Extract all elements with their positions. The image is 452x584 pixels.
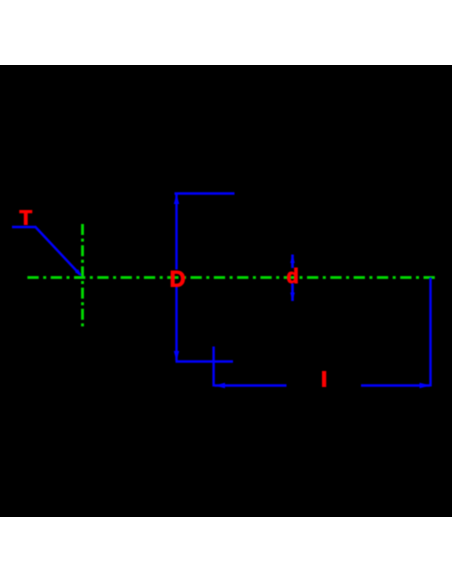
extension line l left vertical xyxy=(212,347,214,387)
arrowhead D up xyxy=(174,194,179,204)
svg-text:d: d xyxy=(287,266,299,288)
dimension line D vertical upper segment xyxy=(175,194,177,270)
arrowhead l left xyxy=(215,383,226,388)
centerline vertical (cross axis) xyxy=(81,224,84,329)
extension line l right vertical xyxy=(429,278,431,387)
dimension line d vertical upper segment xyxy=(291,255,294,269)
leader line T horizontal xyxy=(12,226,36,228)
arrowhead D down xyxy=(174,351,179,361)
centerline horizontal (main axis) xyxy=(27,276,437,279)
leader line T diagonal xyxy=(35,227,80,275)
arrowhead d down xyxy=(290,293,295,302)
arrowhead l right xyxy=(420,383,431,388)
svg-text:T: T xyxy=(20,207,33,230)
extension line D top xyxy=(175,192,235,194)
svg-text:D: D xyxy=(170,267,186,292)
dimension line d vertical lower segment xyxy=(291,284,294,302)
label l xyxy=(322,371,326,387)
dimension line l left segment xyxy=(215,384,287,386)
arrowhead d up xyxy=(290,255,295,264)
arrowhead T (points to crosshair center) xyxy=(75,269,82,276)
black image area xyxy=(0,65,452,517)
dimension line D vertical lower segment xyxy=(175,287,177,362)
dimension line l right segment xyxy=(361,384,430,386)
extension line D bottom xyxy=(176,360,234,362)
